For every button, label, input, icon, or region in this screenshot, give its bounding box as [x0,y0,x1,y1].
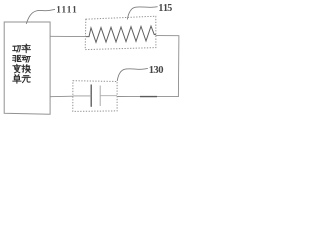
unit box U1111 (power drive conversion unit) [4,22,50,114]
capacitor lead right [100,95,117,97]
svg-text:1: 1 [62,4,67,14]
svg-text:5: 5 [167,3,172,14]
char 元 [22,76,30,83]
svg-text:1: 1 [72,4,77,14]
svg-text:1: 1 [56,4,61,14]
char 动 [22,56,30,62]
dashed box 130 [73,81,117,112]
char 单 [13,75,21,84]
leader to 115 [127,7,157,20]
char 功 [13,46,21,52]
capacitor C 130 : right plate [99,86,101,107]
char 换 [22,65,31,73]
wire: dark segment [140,96,157,98]
char 率 [22,44,30,53]
capacitor lead left [73,95,91,97]
coil L 115 [86,26,156,42]
wire: cap to unit [50,95,73,98]
char 变 [13,64,21,73]
char 驱 [13,55,22,61]
dashed box 115 [85,16,156,49]
svg-text:1: 1 [67,4,72,14]
svg-text:0: 0 [158,65,163,76]
wire: coil right, down to cap [117,36,179,97]
wire: unit to coil [50,35,86,37]
capacitor C 130 : left plate [90,85,92,107]
leader to 1111 [26,9,55,23]
leader to 130 [117,69,148,81]
